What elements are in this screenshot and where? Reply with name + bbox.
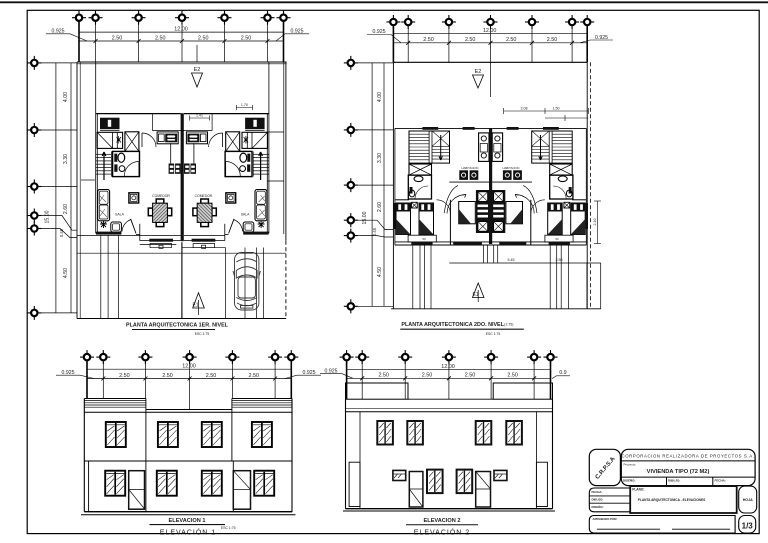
svg-text:SALA: SALA: [115, 213, 124, 217]
center wall: [181, 113, 184, 241]
center wall: [489, 128, 492, 244]
bottom box: [589, 516, 735, 534]
bathroom: [408, 175, 431, 199]
svg-text:ESC 1:75: ESC 1:75: [221, 526, 236, 530]
svg-text:4.50: 4.50: [377, 267, 383, 277]
north interior wall: [96, 113, 181, 115]
svg-text:PLANO:: PLANO:: [632, 487, 644, 491]
west wall: [394, 128, 396, 245]
ground: [346, 508, 553, 510]
svg-text:COMEDOR: COMEDOR: [195, 194, 213, 198]
svg-text:2.60: 2.60: [63, 204, 69, 214]
svg-text:5.45: 5.45: [508, 258, 515, 262]
small top dims: [236, 107, 252, 109]
building: [343, 383, 555, 511]
svg-text:12.00: 12.00: [441, 364, 455, 370]
svg-text:50: 50: [422, 237, 426, 241]
LEFT UNIT detail: [96, 62, 183, 248]
svg-text:4.00: 4.00: [63, 92, 69, 102]
stairs: [96, 151, 112, 180]
front black window seg: [411, 242, 432, 245]
svg-text:HABITACION: HABITACION: [462, 166, 479, 170]
svg-text:ESC 1:75: ESC 1:75: [486, 332, 501, 336]
left grid bubbles: [344, 56, 358, 70]
top grid bubbles: [386, 15, 400, 29]
doors: [409, 472, 490, 508]
svg-text:(1:75): (1:75): [504, 322, 513, 326]
svg-text:4.00: 4.00: [377, 92, 383, 102]
svg-text:0.45: 0.45: [59, 228, 64, 237]
closet 1: [97, 132, 123, 148]
svg-text:2.50: 2.50: [422, 373, 433, 379]
small texts: [422, 166, 559, 241]
circulation arc: [447, 195, 466, 214]
svg-text:1.41: 1.41: [196, 114, 203, 118]
svg-text:1.70: 1.70: [241, 103, 248, 107]
svg-text:2.60: 2.60: [377, 202, 383, 212]
entry door: [122, 220, 131, 232]
ground: [84, 511, 292, 513]
west wall: [95, 62, 97, 233]
svg-text:1/3: 1/3: [742, 521, 754, 530]
dim line total 12.00: [79, 31, 284, 33]
bedroom walls: [395, 199, 409, 201]
svg-text:2.50: 2.50: [547, 37, 558, 43]
tall lower windows: [427, 470, 443, 494]
1/3 cell: [739, 516, 756, 534]
texts (non mirrored): [115, 194, 250, 217]
svg-text:2.50: 2.50: [119, 373, 130, 379]
terrace verticals: [412, 245, 414, 309]
svg-text:SALA: SALA: [241, 213, 250, 217]
west wall window black: [393, 203, 395, 229]
svg-text:VIVIENDA TIPO (72 M2): VIVIENDA TIPO (72 M2): [647, 469, 710, 475]
svg-text:ESC 1:75: ESC 1:75: [195, 332, 210, 336]
svg-text:0.45: 0.45: [372, 227, 377, 236]
sofa: [98, 190, 110, 221]
svg-text:FECHA:: FECHA:: [592, 490, 603, 494]
svg-text:2.50: 2.50: [198, 35, 209, 41]
top micro dims: [504, 108, 589, 121]
lower windows: [105, 471, 125, 496]
parapet blocks: [346, 383, 409, 399]
svg-text:2.50: 2.50: [556, 258, 563, 262]
svg-text:CORPORACION REALIZADORA DE PRO: CORPORACION REALIZADORA DE PROYECTOS S.A…: [622, 453, 755, 458]
E1 marker bottom: [193, 293, 205, 308]
svg-text:APROBADO POR:: APROBADO POR:: [593, 517, 618, 521]
svg-text:12.00: 12.00: [174, 27, 188, 33]
svg-text:DISEÑO:: DISEÑO:: [592, 504, 604, 509]
hoja cell: [739, 486, 757, 513]
closet X: [409, 164, 432, 175]
svg-text:2.50: 2.50: [465, 373, 476, 379]
svg-text:2.10: 2.10: [593, 219, 597, 226]
dim line bays: [79, 40, 284, 42]
plano box: [630, 486, 737, 513]
svg-text:DIBUJO:: DIBUJO:: [668, 478, 680, 482]
desks at top: [459, 170, 468, 180]
svg-text:E2: E2: [475, 69, 482, 75]
svg-text:15.00: 15.00: [362, 211, 368, 224]
coffee table: [129, 193, 139, 203]
kitchen counter right: [157, 132, 178, 144]
dining table: [156, 199, 164, 203]
upper bed at wall: [479, 133, 489, 162]
logo: [589, 449, 620, 485]
svg-text:PLANTA ARQUITECTONICA 1ER. NIV: PLANTA ARQUITECTONICA 1ER. NIVEL: [126, 323, 229, 329]
closet 2 X: [125, 132, 139, 152]
kitchen black box: [100, 118, 120, 130]
svg-text:12.00: 12.00: [483, 28, 497, 34]
small windows: [393, 470, 507, 480]
LEFT UNIT plan2: [393, 127, 489, 309]
svg-text:PLANTA ARQUITECTONICA 2DO. NIV: PLANTA ARQUITECTONICA 2DO. NIVEL: [401, 322, 504, 328]
car: [233, 253, 260, 311]
svg-text:2.50: 2.50: [155, 35, 166, 41]
north wall with black segs: [395, 127, 489, 129]
svg-text:2.50: 2.50: [507, 373, 518, 379]
center stubs: [483, 245, 485, 263]
svg-text:1.50: 1.50: [553, 107, 560, 111]
right lot double line + yard fences: [283, 62, 285, 234]
svg-text:0.9: 0.9: [559, 370, 566, 376]
svg-text:ELEVACIÓN 2: ELEVACIÓN 2: [414, 528, 470, 537]
bathroom: [113, 151, 140, 176]
beds: [396, 203, 411, 235]
svg-text:DISEÑO:: DISEÑO:: [623, 477, 636, 482]
porch boxes: [89, 461, 146, 512]
svg-text:50: 50: [555, 237, 559, 241]
washer/stove pair at center wall: [169, 164, 181, 174]
svg-text:Proyecto:: Proyecto:: [624, 462, 637, 466]
svg-text:3.30: 3.30: [377, 153, 383, 163]
doors: [129, 471, 251, 510]
upper windows: [377, 421, 393, 445]
right bedroom dim: [597, 201, 599, 244]
svg-text:15.00: 15.00: [45, 210, 51, 223]
porch strips: [349, 462, 360, 506]
svg-text:PLANTA ARQUITECTONICA - ELEVAC: PLANTA ARQUITECTONICA - ELEVACIONES: [638, 498, 705, 502]
E1 marker bottom: [473, 283, 485, 298]
building outline: [81, 399, 296, 515]
upper windows: [106, 422, 126, 447]
bedroom NE door arc: [436, 200, 450, 214]
garage: [225, 248, 227, 319]
top grid bubbles: [72, 11, 86, 25]
svg-text:ELEVACIÓN 1: ELEVACIÓN 1: [160, 528, 216, 537]
svg-text:E1: E1: [472, 292, 478, 298]
svg-text:2.50: 2.50: [162, 373, 173, 379]
left grid bubbles: [27, 56, 41, 70]
svg-text:FECHA:: FECHA:: [715, 478, 726, 482]
walls: [345, 399, 347, 509]
left small table: [589, 488, 630, 512]
svg-text:2.50: 2.50: [241, 35, 252, 41]
driveway left unit: [77, 235, 286, 318]
svg-text:2.50: 2.50: [112, 35, 123, 41]
svg-text:2.50: 2.50: [206, 373, 217, 379]
center bay front wall: [450, 241, 530, 243]
svg-text:4.50: 4.50: [63, 268, 69, 278]
lot outline: [77, 62, 287, 319]
main box: [621, 449, 755, 485]
svg-text:2.50: 2.50: [506, 37, 517, 43]
svg-text:ELEVACION 1: ELEVACION 1: [169, 518, 206, 524]
vertical dim lines: [55, 63, 57, 313]
stairs block: [409, 131, 450, 163]
svg-text:ELEVACION 2: ELEVACION 2: [424, 518, 461, 524]
svg-text:3.08: 3.08: [521, 107, 528, 111]
plant: [100, 221, 107, 228]
svg-text:3.30: 3.30: [63, 154, 69, 164]
svg-text:2.50: 2.50: [378, 373, 389, 379]
svg-text:12.00: 12.00: [182, 364, 196, 370]
extension verticals: [79, 21, 284, 62]
svg-text:2.50: 2.50: [249, 373, 260, 379]
door arc to kitchen: [142, 133, 156, 147]
svg-text:COMEDOR: COMEDOR: [152, 194, 170, 198]
svg-text:DIBUJO:: DIBUJO:: [592, 497, 604, 501]
lower horizontal + right strip: [449, 263, 600, 309]
outline: [391, 62, 601, 308]
svg-text:E2: E2: [194, 67, 201, 73]
band: [346, 408, 553, 410]
front wall black + window: [96, 232, 121, 235]
svg-text:HOJA: HOJA: [743, 498, 753, 502]
svg-text:E1: E1: [192, 303, 198, 309]
armchair: [111, 222, 122, 232]
svg-text:HABITACION: HABITACION: [503, 166, 520, 170]
master bed: [459, 202, 476, 224]
top page edge line: [0, 1, 768, 3]
svg-text:2.50: 2.50: [423, 37, 434, 43]
svg-text:2.50: 2.50: [465, 37, 476, 43]
